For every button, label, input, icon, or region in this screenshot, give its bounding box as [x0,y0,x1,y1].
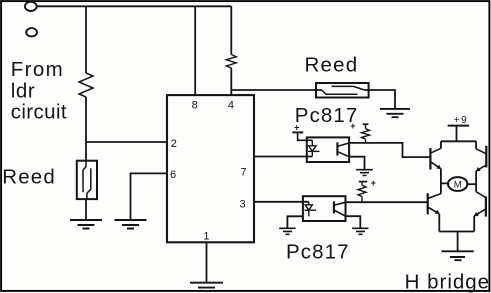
wire opto2 output to Q3 base [346,201,428,203]
wire pin 4 lower [230,68,232,95]
svg-text:+9: +9 [454,115,468,126]
svg-text:Reed: Reed [305,54,359,77]
svg-text:4: 4 [228,100,234,112]
svg-text:H bridge: H bridge [405,271,491,293]
reed switch left [77,161,97,199]
resistor R4 [358,178,376,202]
svg-text:2: 2 [171,138,177,150]
resistor pullup R3 [350,121,369,143]
wire opto2 LED to ground [287,216,303,228]
svg-text:8: 8 [192,100,198,112]
ground left reed [70,220,102,229]
wire Q1 emitter / motor left [441,169,448,194]
wire Q2 collector [475,141,477,149]
svg-text:1: 1 [203,231,209,243]
wire pin 4 upper [230,6,232,54]
wire top rail [37,5,232,7]
svg-text:ldr: ldr [11,80,36,103]
phototransistor of U2 [337,142,349,156]
wire hbridge ground tap [457,232,459,252]
svg-text:From: From [11,58,64,81]
wire reed left to ground [85,199,87,220]
resistor ldr branch [79,73,93,97]
ground opto1 emitter [356,170,373,176]
wire Q4 emitter [473,216,475,232]
transistor Q2 [476,146,487,172]
svg-text:3: 3 [240,199,246,211]
terminal J1 [25,2,37,11]
svg-text:+: + [294,122,299,132]
terminal J2 [26,28,37,36]
wire Q1 collector [440,141,442,148]
transistor Q4 [474,192,486,217]
LED of U2 [308,140,320,156]
wire hbridge top rail [441,140,476,142]
wire hbridge bottom rail [439,231,474,233]
transistor Q1 [430,148,441,170]
+V terminal opto1 [292,122,312,140]
svg-text:+: + [350,121,355,131]
ground top reed [380,109,410,117]
label From ldr circuit [11,58,67,123]
wire motor right [467,183,476,185]
wire ldr branch upper [85,6,87,73]
svg-text:Pc817: Pc817 [286,241,350,264]
svg-text:Reed: Reed [2,165,56,188]
wire pin4 to reed top [231,89,322,91]
wire Q2 emitter / right column [475,171,477,192]
ground opto2 emitter [352,228,368,234]
transistor Q3 [428,193,441,214]
wire pin 6 [131,173,168,220]
svg-text:circuit: circuit [11,100,67,123]
motor M1 [448,177,467,191]
ground pin 6 [115,220,147,229]
wire Q3 emitter [438,214,440,232]
reed switch top [316,83,369,98]
wire pin 1 [206,242,208,282]
+9 terminal [448,115,469,141]
wire pin 3 [254,201,309,203]
resistor pin4 branch [226,55,236,69]
svg-text:7: 7 [241,167,247,179]
svg-text:Pc817: Pc817 [295,104,359,127]
optocoupler U3 PC817 [303,196,346,221]
svg-text:M: M [454,180,462,191]
IC U1 (555) [167,95,254,242]
wire pin 2 [86,141,167,143]
wire pin 8 [194,6,196,95]
optocoupler U2 PC817 [307,137,349,162]
wire reed top to ground [365,90,396,109]
wire opto2 emitter to ground [346,216,361,228]
wire opto1 emitter to ground [349,157,364,170]
svg-text:6: 6 [170,169,176,181]
wire opto1 output to Q1 base [349,143,430,157]
ground hbridge [442,251,474,260]
wire pin 7 [254,156,312,158]
wire ldr branch lower [85,97,87,161]
phototransistor of U3 [334,201,346,216]
ground opto2 LED [279,228,295,234]
LED of U3 [305,202,317,217]
ground pin 1 [190,283,223,291]
svg-text:+: + [371,178,376,188]
